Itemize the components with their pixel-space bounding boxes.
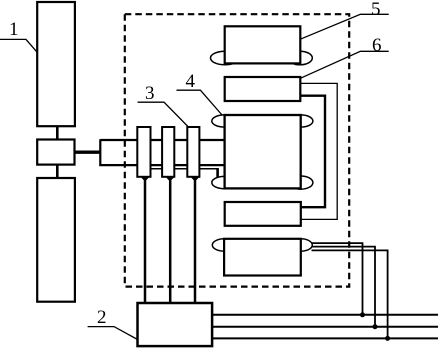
- svg-text:5: 5: [371, 0, 381, 20]
- stator winding left end (oval): [212, 239, 236, 251]
- wire: coil 6 inner loop to lower winding: [300, 96, 325, 208]
- bus line 3: [212, 337, 438, 339]
- svg-text:2: 2: [97, 307, 107, 328]
- svg-text:6: 6: [372, 35, 382, 56]
- junction dot B: [373, 324, 378, 329]
- shaft band: [100, 139, 226, 166]
- coil 5 left end (oval): [211, 51, 240, 65]
- shaft stub from hub: [75, 150, 101, 153]
- lower auxiliary winding body: [225, 202, 301, 226]
- converter box (2): [138, 303, 213, 346]
- wire: upper blade to hub: [56, 126, 59, 139]
- label 5: [300, 0, 388, 39]
- wind wheel lower blade: [37, 178, 75, 302]
- wire: brush 2 to converter: [169, 181, 172, 305]
- wire: brush 3 to converter: [194, 181, 197, 305]
- svg-text:1: 1: [9, 19, 19, 40]
- wire: slip rings to rotor winding: [148, 168, 218, 170]
- rotor winding end bottom-right (oval): [289, 176, 313, 189]
- brush 3: [191, 177, 200, 182]
- coil 5 right end (oval): [288, 51, 313, 65]
- junction dot A: [360, 312, 365, 317]
- wire: stator phase B to bus: [312, 247, 376, 327]
- label 6: [300, 35, 388, 78]
- brush 2: [166, 177, 175, 182]
- bus line 1: [212, 314, 438, 316]
- wire: stator phase C to bus: [312, 250, 388, 338]
- rotor winding end bottom-left (oval): [212, 176, 238, 188]
- rotor winding end top-right (oval): [289, 115, 313, 127]
- svg-text:4: 4: [186, 71, 196, 92]
- coil 6 body (auxiliary winding): [225, 77, 301, 101]
- svg-text:3: 3: [145, 83, 155, 104]
- bus line 2: [212, 326, 438, 328]
- stator winding right end (oval): [289, 239, 312, 251]
- slip ring 2: [162, 127, 174, 177]
- label 3 (slip rings): [138, 83, 189, 128]
- slip ring 1: [137, 127, 150, 177]
- wire: brush 1 to converter: [144, 181, 147, 305]
- wind wheel upper blade: [37, 2, 75, 126]
- label 2: [88, 307, 138, 340]
- brush 1: [141, 177, 150, 182]
- stator winding body: [224, 239, 301, 276]
- label 1 (wind wheel): [0, 19, 37, 52]
- coil 5 body (excitation winding): [225, 26, 301, 63]
- slip ring 3: [187, 127, 199, 177]
- wire: hub to lower blade: [56, 165, 59, 178]
- hub: [37, 140, 74, 165]
- wire: stator phase A to bus: [312, 243, 363, 315]
- dashed enclosure (generator housing): [125, 14, 349, 286]
- label 4 (rotor): [177, 71, 225, 118]
- wire: coil 6 outer loop to lower winding: [300, 83, 337, 219]
- rotor winding end top-left (oval): [212, 115, 238, 127]
- junction dot C: [385, 336, 390, 341]
- rotor core (4): [225, 115, 301, 188]
